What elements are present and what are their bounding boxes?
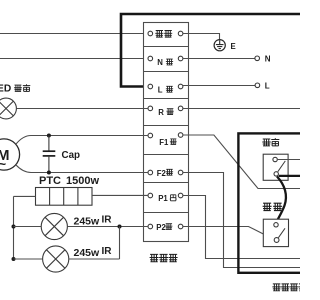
- label 接线排 below block: [150, 254, 178, 261]
- terminal block 接线排 outline: [144, 23, 189, 242]
- junction dot cap bottom: [47, 171, 51, 175]
- svg-text:N: N: [265, 54, 271, 63]
- svg-text:245w: 245w: [74, 247, 101, 259]
- label 控制开关 below box: [272, 284, 307, 291]
- wire P2 to 灯暖 switch: [183, 227, 274, 240]
- junction dot cap top: [47, 134, 51, 138]
- switch 照明: [263, 154, 300, 180]
- IR lamp 2 245w: [14, 246, 120, 272]
- junction dot IR right: [118, 225, 122, 229]
- svg-text:~: ~: [0, 156, 7, 171]
- svg-text:LED: LED: [0, 84, 11, 95]
- terminal row P1 白: [148, 193, 183, 203]
- terminal row N 蓝: [148, 56, 183, 67]
- switch 灯暖: [263, 219, 288, 246]
- terminal row F1 黑: [148, 133, 183, 147]
- control switch box 控制开关: [238, 133, 306, 272]
- junction dot IR2 left: [12, 257, 16, 261]
- terminal row P2 橙: [148, 223, 183, 232]
- junction dot IR1 left: [12, 225, 16, 229]
- svg-text:P1: P1: [158, 194, 168, 203]
- svg-text:1500w: 1500w: [66, 175, 99, 187]
- output terminal N with wire: [183, 54, 271, 63]
- thick wire from 照明 bottom terminal to right: [279, 175, 300, 177]
- wire IR right vertical: [119, 227, 121, 260]
- terminal row L 棕: [148, 84, 183, 94]
- svg-text:Cap: Cap: [62, 150, 81, 161]
- terminal row R 灰: [148, 106, 183, 117]
- LED lamp with label LED 照明: [0, 84, 148, 119]
- svg-text:F2: F2: [157, 169, 167, 178]
- svg-text:P2: P2: [156, 223, 166, 232]
- output terminal L with wire: [183, 82, 270, 91]
- wire F1 to control area (diagonal): [183, 135, 300, 189]
- svg-text:F1: F1: [159, 138, 169, 147]
- terminal row F2 黄: [148, 169, 183, 178]
- svg-text:L: L: [265, 82, 270, 91]
- wire: N from mains to block row2: [0, 58, 148, 60]
- wire common vertical left: [13, 196, 15, 259]
- terminal row 黄绿 (earth): [148, 30, 183, 37]
- svg-text:L: L: [158, 85, 163, 94]
- terminal block row dividers: [144, 47, 189, 213]
- svg-text:IR: IR: [102, 246, 113, 257]
- thick wire 照明 to 灯暖 (S-curve): [276, 177, 286, 224]
- wire P1 routed to bottom right: [183, 196, 300, 259]
- capacitor Cap: [43, 136, 80, 173]
- svg-text:R: R: [158, 108, 164, 117]
- earth symbol E with wire from 黄绿 right terminal: [183, 34, 236, 51]
- PTC heater: [14, 188, 149, 206]
- svg-text:IR: IR: [102, 214, 113, 225]
- label 照明 (switch 1): [262, 138, 279, 146]
- wire R row to right edge: [183, 108, 300, 110]
- label 灯暖 (switch 2): [263, 203, 283, 210]
- svg-text:E: E: [231, 42, 236, 51]
- svg-text:N: N: [157, 58, 163, 67]
- motor M: [0, 136, 148, 173]
- wire F2 routed to bottom right: [183, 173, 300, 268]
- wire: earth (yellow-green) from mains to block row1: [0, 33, 148, 35]
- svg-text:PTC: PTC: [39, 175, 61, 187]
- wire: L thick routed from block row3 up and across top to control area: [121, 14, 300, 87]
- IR lamp 1 245w: [14, 213, 149, 239]
- svg-text:245w: 245w: [74, 215, 101, 227]
